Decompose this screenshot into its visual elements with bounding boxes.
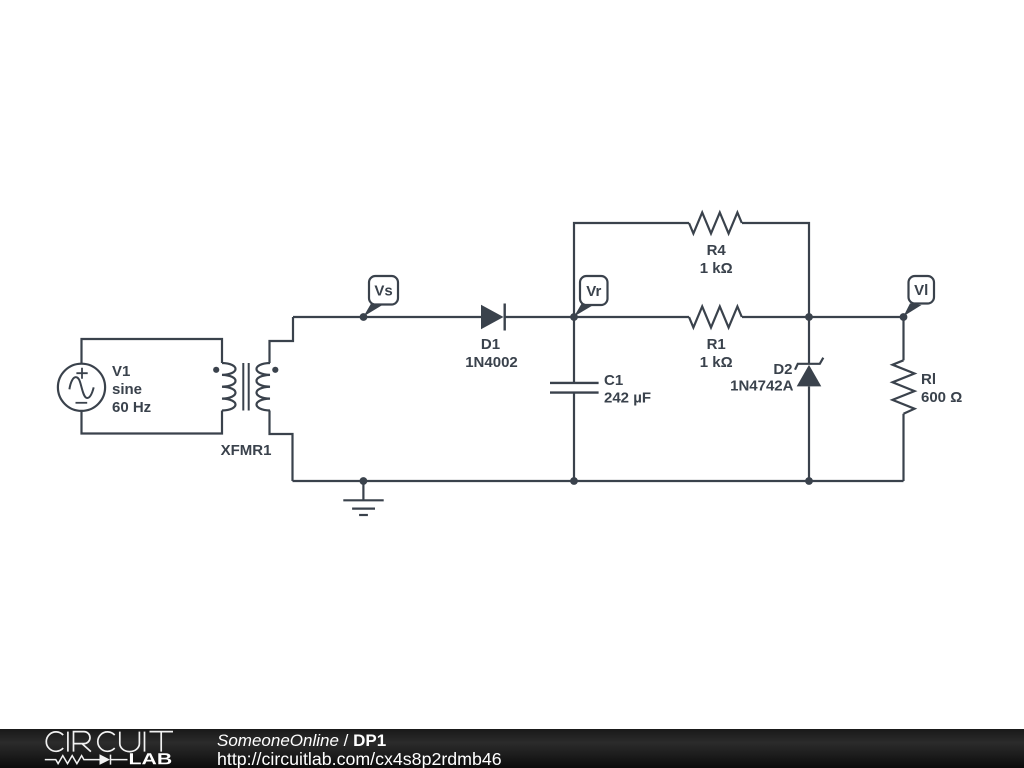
wire R4 branch left vertical	[574, 223, 689, 317]
resistor R4	[689, 213, 742, 278]
resistor Rl	[893, 360, 963, 413]
svg-text:1 kΩ: 1 kΩ	[700, 260, 733, 277]
wire primary bottom	[82, 411, 223, 434]
svg-text:1N4742A: 1N4742A	[730, 378, 794, 395]
svg-text:C1: C1	[604, 372, 623, 389]
node Vr	[570, 276, 607, 321]
svg-text:60 Hz: 60 Hz	[112, 399, 151, 416]
svg-text:600 Ω: 600 Ω	[921, 389, 962, 406]
svg-text:Rl: Rl	[921, 371, 936, 388]
voltage source V1	[58, 363, 151, 416]
node Vs	[360, 276, 398, 321]
wire D1-R1	[505, 316, 689, 318]
svg-text:XFMR1: XFMR1	[221, 442, 272, 459]
wire D2 bottom lead	[808, 387, 810, 482]
svg-text:1 kΩ: 1 kΩ	[700, 354, 733, 371]
ground	[343, 481, 383, 515]
footer url	[217, 749, 502, 768]
footer title	[217, 731, 386, 751]
svg-text:V1: V1	[112, 363, 130, 380]
node Vl	[900, 276, 934, 321]
wire secondary top jog	[270, 317, 294, 363]
svg-text:Vr: Vr	[586, 283, 601, 300]
footer bar	[0, 729, 1024, 768]
svg-text:1N4002: 1N4002	[465, 354, 518, 371]
svg-text:D2: D2	[773, 361, 792, 378]
capacitor C1	[550, 372, 651, 407]
wire primary top	[82, 339, 223, 364]
svg-text:D1: D1	[481, 336, 500, 353]
wire D2 top lead	[808, 317, 810, 363]
CircuitLab logo	[0, 729, 230, 768]
wire bottom rail	[293, 480, 904, 482]
wire Vr to C1	[573, 317, 575, 382]
wire R4 branch right	[742, 223, 809, 317]
junction ground	[360, 477, 368, 485]
wire R1-Vl	[742, 316, 904, 318]
junction C1 bottom	[570, 477, 578, 485]
svg-text:242 µF: 242 µF	[604, 390, 651, 407]
junction R4/R1	[805, 313, 813, 321]
wire main Vs-D1	[293, 316, 481, 318]
diode D1	[465, 304, 518, 372]
junction D2 bottom	[805, 477, 813, 485]
svg-text:R1: R1	[707, 336, 726, 353]
svg-text:Vl: Vl	[914, 282, 928, 299]
wire secondary bottom	[270, 411, 293, 482]
wire C1 to rail	[573, 394, 575, 482]
wire Rl bottom lead	[902, 414, 904, 481]
transformer XFMR1	[213, 363, 278, 459]
svg-text:R4: R4	[707, 242, 727, 259]
svg-text:sine: sine	[112, 381, 142, 398]
svg-text:Vs: Vs	[374, 283, 392, 300]
zener diode D2	[730, 358, 823, 395]
wire Rl top lead	[902, 317, 904, 360]
resistor R1	[689, 307, 742, 372]
